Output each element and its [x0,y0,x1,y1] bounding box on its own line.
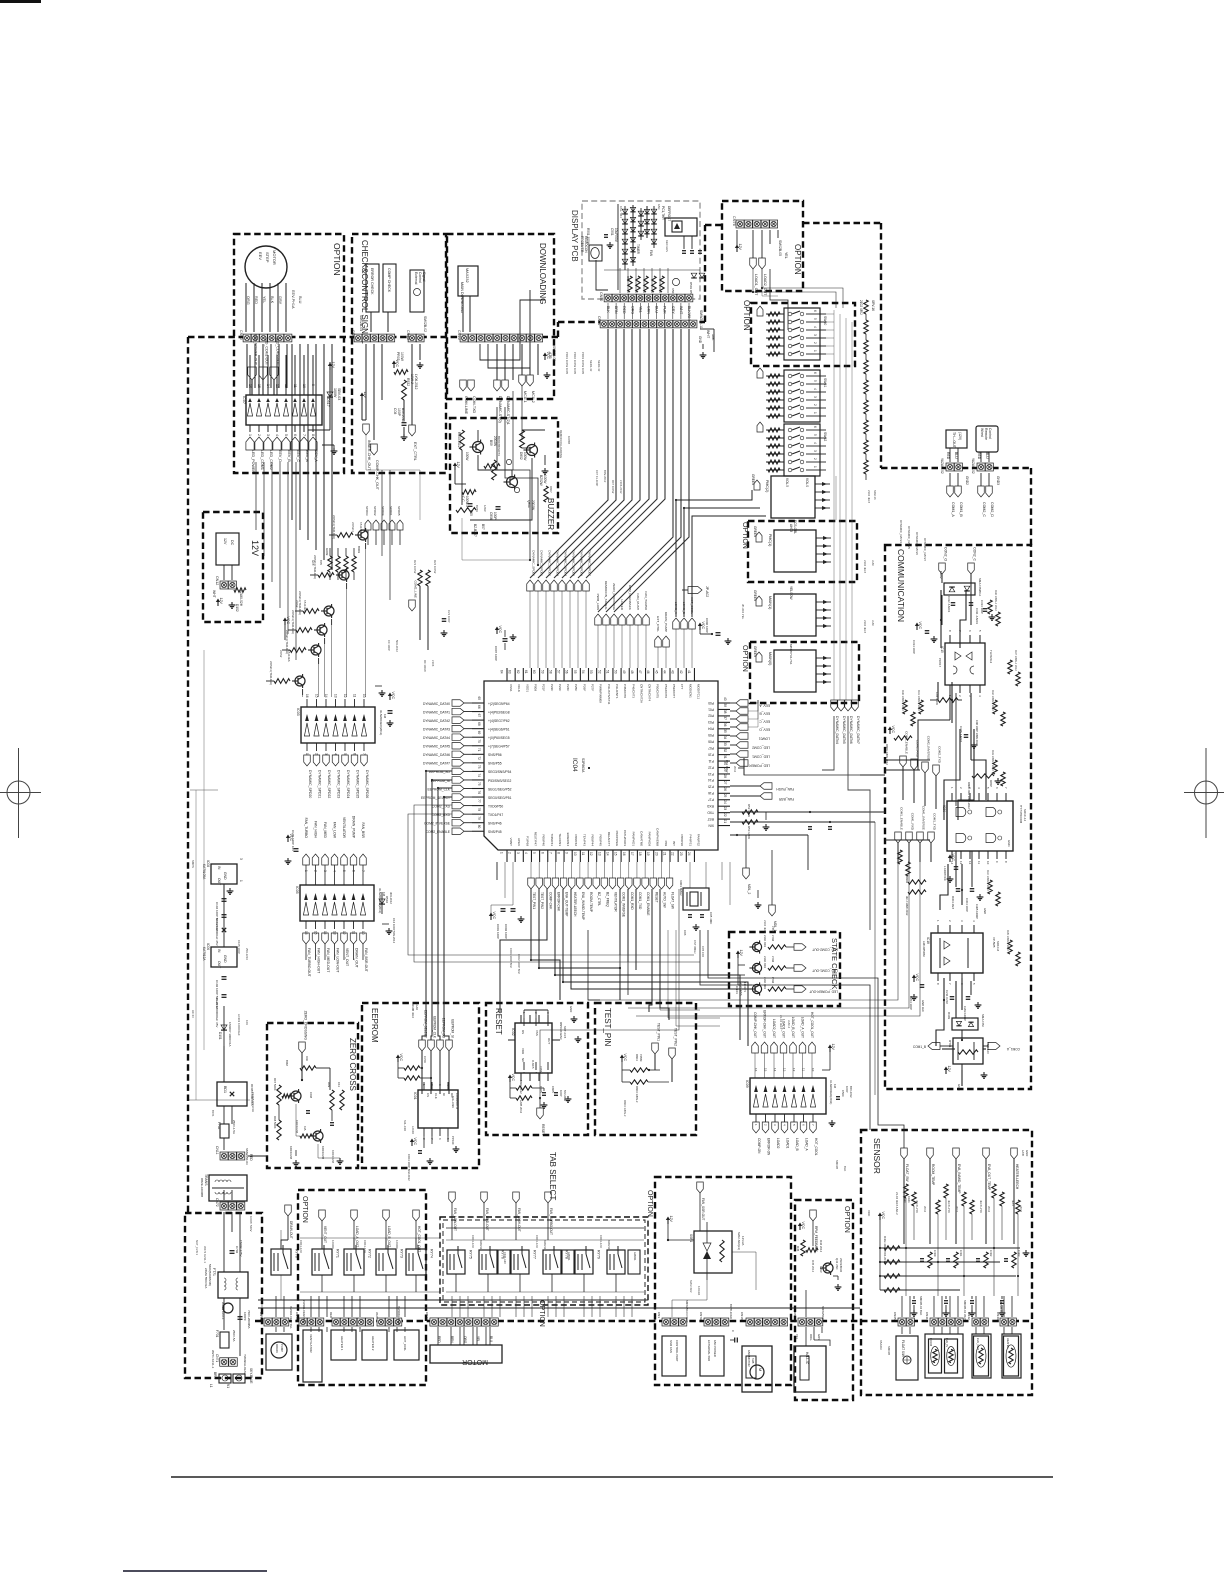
svg-text:C06: C06 [683,930,687,936]
svg-text:LOSER: LOSER [620,600,624,611]
svg-text:MAX232: MAX232 [465,268,469,283]
svg-text:2: 2 [959,787,963,789]
svg-text:GND: GND [223,955,227,963]
svg-text:LM1485DM: LM1485DM [922,941,926,957]
svg-text:S3L-C96: S3L-C96 [451,1096,455,1108]
svg-text:IC04: IC04 [571,758,578,772]
svg-text:C16 100P 50V-2012: C16 100P 50V-2012 [392,918,396,944]
ssr connectors [662,1318,670,1326]
IC05 diode D510 [381,892,383,914]
svg-text:P07: P07 [708,746,714,750]
mcu top flag row c [655,636,662,647]
mcu left pins [472,702,484,704]
svg-text:100P: 100P [493,512,497,519]
svg-text:R0 100W: R0 100W [423,660,427,672]
svg-text:MBT/8Y34-7S1: MBT/8Y34-7S1 [789,644,793,665]
cascade gnd [381,690,383,693]
svg-text:VENTILATOR: VENTILATOR [614,892,618,912]
svg-text:100W: 100W [400,352,404,362]
svg-text:DYNAMIC_DAT#6: DYNAMIC_DAT#6 [915,532,919,555]
svg-text:DB2E-10008B: DB2E-10008B [200,1178,204,1197]
svg-text:C312 J-A001: C312 J-A001 [947,596,951,613]
svg-text:2102 4R/J: 2102 4R/J [859,300,863,315]
svg-text:50V-2012: 50V-2012 [563,1090,567,1102]
svg-text:35: 35 [723,729,727,733]
svg-text:6: 6 [293,434,297,436]
svg-text:G009: G009 [325,548,329,556]
svg-text:PR03: PR03 [396,352,400,361]
svg-text:2012: 2012 [987,1206,991,1213]
svg-text:10: 10 [811,1068,815,1072]
svg-text:C101 1000000uF 35V: C101 1000000uF 35V [215,998,219,1027]
svg-text:61: 61 [524,670,528,674]
wires pmc to flags [835,476,837,520]
svg-text:DYNAMIC_SPD25: DYNAMIC_SPD25 [356,770,360,798]
svg-text:BZ02W: BZ02W [539,475,543,486]
svg-text:TEA/P43: TEA/P43 [582,834,586,846]
IC05 gnd [388,928,390,931]
svg-text:SPD05: SPD05 [397,506,401,516]
svg-text:P08/P30: P08/P30 [680,834,684,846]
comm caps C315 [964,734,969,736]
svg-text:REMOCON-LOADING: REMOCON-LOADING [559,430,563,458]
svg-text:CF005 800V/1A: CF005 800V/1A [251,1092,255,1112]
svg-text:51: 51 [605,670,609,674]
svg-text:CN64: CN64 [735,986,739,994]
svg-text:DRAIN_OUT: DRAIN_OUT [355,948,359,968]
comm pullup caps [956,888,961,890]
svg-text:EEV-PH1A: EEV-PH1A [291,290,295,309]
zero cross extra [300,1066,316,1070]
svg-text:4R/J LY06: 4R/J LY06 [947,1200,951,1213]
svg-text:3: 3 [516,852,520,854]
svg-text:TXD0/P50: TXD0/P50 [488,804,503,808]
svg-text:2102 4R/J: 2102 4R/J [863,620,867,633]
svg-text:TON/P41: TON/P41 [550,834,554,847]
svg-text:MAIN(1): MAIN(1) [768,596,772,609]
svg-text:R53 1/8W: R53 1/8W [747,826,751,839]
svg-text:DI: DI [442,1093,446,1096]
relay connector wires bottom [451,1296,453,1317]
svg-text:6: 6 [540,852,544,854]
svg-text:P08/P45: P08/P45 [599,834,603,846]
svg-text:L/FB: L/FB [1021,1150,1025,1156]
svg-text:IC05: IC05 [295,886,299,894]
svg-text:DYNAMIC_DAT#5: DYNAMIC_DAT#5 [842,716,846,744]
tab ic1 [498,1250,510,1274]
svg-text:100W-J: 100W-J [465,496,469,507]
svg-text:COM2_D: COM2_D [990,502,994,517]
svg-text:DYNAMIC_SPD02: DYNAMIC_SPD02 [548,550,552,576]
svg-text:SNS/P45: SNS/P45 [488,830,502,834]
svg-text:5: 5 [813,318,817,320]
mid trunk wires chip right to comm [743,758,745,775]
cn76 12v [736,248,738,252]
svg-text:RED GRN: RED GRN [665,240,669,252]
svg-text:BC847B/SOT4: BC847B/SOT4 [497,436,501,456]
svg-text:COM1_B: COM1_B [959,502,963,517]
svg-text:PAN/PAD9: PAN/PAD9 [648,832,652,847]
load wires to modules [676,490,752,617]
display bus wires [530,329,608,578]
sensor extra resistors [904,1184,908,1198]
float sw box [896,1336,918,1380]
svg-text:X001 8MHz: X001 8MHz [679,880,683,896]
svg-text:CN60: CN60 [239,330,243,340]
svg-text:EEV: EEV [258,252,263,260]
svg-text:6: 6 [995,787,999,789]
svg-text:C501: C501 [610,228,614,236]
svg-text:10: 10 [986,861,990,865]
svg-text:20: 20 [654,852,658,856]
svg-text:SW60: SW60 [823,316,827,325]
svg-text:C211 C202: C211 C202 [945,990,949,1004]
svg-text:C105 100P: C105 100P [237,940,241,954]
svg-text:COM-LINE: COM-LINE [464,396,468,415]
svg-text:16: 16 [305,694,309,698]
svg-text:LED_COM1-OUT: LED_COM1-OUT [265,338,269,366]
svg-text:DYNAMIC_DAT#5: DYNAMIC_DAT#5 [907,526,911,549]
svg-text:D802: D802 [519,452,523,460]
svg-text:28: 28 [723,774,727,778]
svg-text:P08/P42: P08/P42 [574,834,578,846]
svg-text:CN41: CN41 [925,1312,929,1320]
reset ic IC02 [515,1023,552,1073]
svg-text:VOL.5: VOL.5 [785,478,789,487]
svg-text:8: 8 [311,434,315,436]
display connector row CN30 lower [600,320,608,328]
svg-text:VCC: VCC [623,1054,627,1062]
IC07 output wires [249,355,251,388]
svg-text:R33 1/8W-J 2012: R33 1/8W-J 2012 [991,750,995,771]
svg-text:TEST_PIN1: TEST_PIN1 [532,892,536,909]
svg-text:2: 2 [948,920,952,922]
cap fan [734,1338,736,1343]
svg-text:YAZAKI: YAZAKI [879,1340,883,1350]
svg-text:CNTR/CNT2A: CNTR/CNT2A [639,684,643,703]
svg-text:CN76: CN76 [732,216,736,226]
svg-text:LED_COM1-OUT: LED_COM1-OUT [812,969,838,973]
svg-text:WHT: WHT [375,1312,379,1319]
cascade transistor Q62 [324,606,334,616]
10k resistor right [700,328,714,330]
connector CN61 [354,334,362,342]
comm long vertical wires [955,693,957,806]
svg-text:C806: C806 [489,512,493,520]
svg-text:2012: 2012 [923,1206,927,1213]
svg-text:C11: C11 [337,1082,341,1087]
svg-text:13: 13 [334,694,338,698]
svg-text:5: 5 [986,787,990,789]
svg-text:RED: RED [249,1154,253,1161]
flags DYNAMIC-ST [494,380,501,391]
svg-text:IC02: IC02 [511,1028,515,1036]
svg-text:P12: P12 [708,765,714,769]
svg-text:4: 4 [977,787,981,789]
svg-text:P50/CNT5: P50/CNT5 [656,684,660,698]
svg-text:R07 560K: R07 560K [273,1078,277,1091]
gnd check2 [419,362,421,365]
svg-text:C941: C941 [907,1196,911,1203]
scr module [694,1231,732,1273]
svg-text:ERROR-CHK_OUT: ERROR-CHK_OUT [763,1010,767,1038]
cap C531 [402,422,407,424]
svg-text:7: 7 [811,1124,815,1126]
cascade transistor Q64 [311,645,321,655]
svg-text:OUT: OUT [547,1038,551,1044]
ssr flag [697,1182,704,1193]
resistor R532 [402,380,407,400]
mcu crystal X001 [683,888,709,910]
hall vcc [799,1226,801,1230]
svg-text:P22F: P22F [550,684,554,691]
svg-text:RED: RED [977,452,981,460]
svg-text:BLK: BLK [270,296,274,304]
test pin box [595,1003,696,1135]
svg-text:VCC: VCC [918,622,922,630]
svg-text:DOWNLOADING: DOWNLOADING [538,243,547,304]
svg-text:DYNAMIC-ST(2)1: DYNAMIC-ST(2)1 [506,396,510,425]
svg-text:73: 73 [477,765,481,769]
svg-text:LOAD2_OUT: LOAD2_OUT [772,1019,776,1038]
svg-text:TRS-12V: TRS-12V [986,1042,990,1054]
svg-text:14: 14 [324,694,328,698]
svg-text:10: 10 [573,852,577,856]
svg-text:220W: 220W [295,600,299,608]
tab relays [447,1250,465,1274]
wires downloading to mcu [497,407,530,560]
svg-text:52: 52 [597,670,601,674]
svg-text:12: 12 [589,852,593,856]
svg-text:R46 2012: R46 2012 [819,1240,823,1253]
svg-text:CONTROL PART: CONTROL PART [675,1340,679,1362]
svg-text:LOAD_B: LOAD_B [795,1138,799,1151]
resistor R531 [393,364,395,368]
svg-text:SEG3/SNS/P54: SEG3/SNS/P54 [488,770,511,774]
svg-text:SMW250-03 WHT: SMW250-03 WHT [685,1300,689,1323]
svg-text:EEV_C: EEV_C [296,450,300,462]
svg-text:2102 4R/J: 2102 4R/J [763,977,767,990]
svg-text:R80D: R80D [905,876,909,883]
svg-text:7: 7 [948,983,952,985]
svg-text:11C0P1: 11C0P1 [743,982,747,992]
comm com1 flag column [895,832,902,843]
svg-text:CN50: CN50 [599,292,603,301]
svg-text:PUL/SYS/ST11: PUL/SYS/ST11 [607,684,611,705]
flags MCU [519,375,526,386]
svg-text:R36 1/8W-J 2012: R36 1/8W-J 2012 [994,590,998,611]
svg-text:AJ8211: AJ8211 [543,1240,547,1250]
svg-text:YW396H-03AV: YW396H-03AV [243,1354,247,1374]
svg-text:4: 4 [813,326,817,328]
display option bus [770,269,788,330]
load connectors [299,1318,307,1326]
svg-text:COM2_RXD: COM2_RXD [916,740,920,758]
option box loads [298,1190,426,1385]
svg-text:PR03 100W 1005: PR03 100W 1005 [581,352,585,375]
svg-text:DRAIN: DRAIN [275,1344,279,1353]
svg-text:Q41 2SC: Q41 2SC [835,1258,839,1270]
svg-text:33: 33 [723,742,727,746]
svg-text:13: 13 [597,852,601,856]
EEV step motor M1 [245,246,287,288]
svg-text:26: 26 [723,787,727,791]
svg-text:P16: P16 [708,791,714,795]
wired remote control box [976,426,998,452]
svg-text:EEV_D: EEV_D [759,728,770,732]
svg-text:47: 47 [638,670,642,674]
svg-text:23: 23 [679,852,683,856]
svg-text:M: M [758,1368,762,1371]
svg-text:GREEN: GREEN [751,474,755,486]
fan flags tab [449,1192,456,1203]
svg-text:220W: 220W [279,650,283,658]
svg-text:P10: P10 [708,752,714,756]
downloading down wires [512,391,514,470]
svg-text:FAN_MED: FAN_MED [323,822,327,839]
sensor network wires [880,1247,1020,1249]
svg-text:LED_POWER: LED_POWER [251,450,255,473]
comm vcc C314 [916,626,918,630]
svg-text:WHT: WHT [212,590,216,598]
wire trunks relay to connectors [275,1296,277,1317]
cascade transistor Q65 [295,676,305,686]
svg-text:R05: R05 [469,510,473,516]
ssr 12v [667,1220,669,1224]
svg-text:COM1_TXD: COM1_TXD [638,892,642,910]
svg-text:P3/P69: P3/P69 [525,836,529,846]
svg-text:76: 76 [477,791,481,795]
buzzer transistor Q801 [473,442,484,453]
relay RY73 [376,1249,396,1275]
svg-text:COM1_RXD: COM1_RXD [630,892,634,910]
svg-text:KRC102M: KRC102M [321,1146,325,1160]
svg-text:Control: Control [988,428,992,439]
state check bus wires [660,930,700,1010]
option box PMC1 [748,521,857,582]
svg-text:MOTOR: MOTOR [272,250,277,265]
svg-text:SEG0/SEG/P51: SEG0/SEG/P51 [488,796,512,800]
svg-text:EEPROM_CLK: EEPROM_CLK [433,1016,437,1039]
svg-text:CS: CS [426,1093,430,1097]
svg-text:DYNAMIC_DAT#6: DYNAMIC_DAT#6 [849,716,853,744]
svg-text:P53/SNS/SEG2: P53/SNS/SEG2 [488,779,511,783]
test pin resistors [621,1058,623,1062]
svg-text:SM02B: SM02B [887,1346,891,1355]
svg-text:R804: R804 [635,1054,639,1061]
svg-text:C709: C709 [423,1056,427,1063]
svg-text:P02/P/PEG: P02/P/PEG [615,831,619,847]
svg-text:BUZZER: BUZZER [546,498,555,530]
svg-text:S3P863A: S3P863A [581,758,585,773]
svg-text:16V: 16V [245,1020,249,1025]
svg-text:60: 60 [532,670,536,674]
svg-text:71: 71 [477,748,481,752]
svg-text:COM1_ENABLE: COM1_ENABLE [900,807,904,830]
svg-text:LED_COM2: LED_COM2 [752,746,770,750]
svg-text:BRN: BRN [213,1372,217,1379]
svg-text:GND: GND [1007,840,1011,846]
svg-text:Remote: Remote [984,428,988,440]
mid column parts [418,570,422,586]
svg-text:JP-A02: JP-A02 [705,586,709,597]
mcu bottom pins [506,850,508,862]
switch module SW61 [784,370,820,422]
comm surge diode M002 [944,583,975,595]
wires sw modules to resistor col [820,313,834,315]
svg-text:15: 15 [764,1068,768,1072]
svg-text:COM1_RXD: COM1_RXD [911,813,915,831]
svg-text:OPTION: OPTION [538,1300,545,1327]
svg-text:7: 7 [1004,787,1008,789]
buzzer box [450,418,558,533]
comm R806 vcc [889,730,891,734]
svg-text:FAN_RUSH: FAN_RUSH [636,593,640,610]
extra junction dots [752,291,754,293]
hall transistor [823,1263,833,1273]
mcu IC04 body [484,681,718,850]
svg-text:C311 J-A001: C311 J-A001 [975,608,979,625]
IC05 vcc cap [287,838,289,842]
svg-text:1: 1 [248,434,252,436]
svg-text:SRV-16: SRV-16 [871,300,875,311]
svg-text:COM1_TXD: COM1_TXD [933,813,937,831]
svg-text:FAN_MED-OUT: FAN_MED-OUT [485,1208,489,1231]
resistor column right of switches [864,300,868,314]
IC07 input flags [246,437,254,450]
regulator IC06 [211,947,237,967]
svg-text:LOAD_B_OUT: LOAD_B_OUT [387,1226,391,1247]
svg-text:24: 24 [723,800,727,804]
footer link line [123,1570,267,1572]
buzzer resistors [460,430,465,450]
svg-text:L2048: L2048 [411,1126,415,1134]
svg-text:2: 2 [958,695,962,697]
svg-text:SM02B: SM02B [835,1160,839,1169]
svg-text:MAIN DOWNLOAD: MAIN DOWNLOAD [460,282,464,314]
svg-text:PAN/P32: PAN/P32 [696,834,700,846]
svg-text:RY01: RY01 [948,1040,952,1048]
svg-text:FLOAT_SW: FLOAT_SW [671,892,675,909]
svg-text:OPTION: OPTION [793,244,802,275]
svg-text:SPD04: SPD04 [381,506,385,516]
mcu right lower flags [760,783,772,790]
svg-text:P09: P09 [664,841,668,847]
svg-text:12VDC: 12VDC [331,1240,335,1249]
svg-text:FAN_SSR-OUT: FAN_SSR-OUT [701,1198,705,1220]
relay RY74 [406,1249,426,1275]
svg-text:CR11-12V: CR11-12V [471,1235,475,1248]
svg-text:+(4)SEG7/P62: +(4)SEG7/P62 [488,719,510,723]
svg-text:DYNAMIC_SPD05: DYNAMIC_SPD05 [572,550,576,576]
wire cn76 to comm [762,269,778,296]
svg-text:B009: B009 [357,546,361,553]
svg-text:VCC: VCC [391,692,395,700]
12v connector CN12 [220,581,228,589]
svg-text:3: 3 [960,920,964,922]
svg-text:AJ8211: AJ8211 [633,1252,637,1261]
pmc1 module [774,530,816,572]
zero cross transistor Q12 [313,1131,323,1141]
svg-text:C305 1000P: C305 1000P [975,904,979,919]
svg-text:DYNAMIC_SPD20: DYNAMIC_SPD20 [308,770,312,798]
svg-text:MCU-1: MCU-1 [523,391,527,403]
svg-text:C203 1000P: C203 1000P [963,1006,967,1021]
sensor box [861,1130,1032,1395]
external control signal box [410,270,424,312]
svg-text:HEATER 2: HEATER 2 [371,1336,375,1351]
buzzer wires [461,450,463,505]
